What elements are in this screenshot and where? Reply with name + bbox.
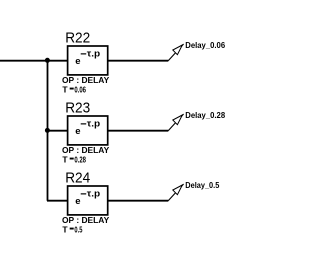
delay block R23 [68,116,108,145]
delay block R22 [68,46,108,75]
node junction row1 [45,58,50,63]
probe arrow row3 [168,184,183,201]
svg-text:R22: R22 [65,30,90,46]
svg-text:OP : DELAY: OP : DELAY [62,215,110,225]
svg-text:τ.p: τ.p [87,188,101,199]
probe arrow row2 [168,114,183,131]
svg-text:R23: R23 [65,100,90,116]
svg-text:τ.p: τ.p [87,48,101,59]
svg-text:−: − [80,48,86,60]
svg-text:T: T [62,154,68,164]
svg-text:R24: R24 [65,170,90,186]
svg-text:T: T [62,84,68,94]
svg-text:0.06: 0.06 [74,84,86,94]
svg-text:−: − [80,188,86,200]
svg-text:Delay_0.28: Delay_0.28 [185,110,225,120]
node junction row2 [45,128,50,133]
svg-text:−: − [80,118,86,130]
svg-text:Delay_0.06: Delay_0.06 [185,40,225,50]
probe arrow row1 [168,44,183,61]
svg-text:0.28: 0.28 [74,154,86,164]
svg-text:0.5: 0.5 [74,224,82,234]
wire branch to R24 [47,200,67,202]
wire input net [0,60,67,62]
wire R24 output [108,200,168,202]
svg-text:Delay_0.5: Delay_0.5 [185,180,219,190]
wire vertical bus [47,61,49,201]
svg-text:T: T [62,224,68,234]
wire branch to R23 [47,130,67,132]
wire R22 output [108,60,168,62]
svg-text:τ.p: τ.p [87,118,101,129]
delay block R24 [68,186,108,215]
wire R23 output [108,130,168,132]
